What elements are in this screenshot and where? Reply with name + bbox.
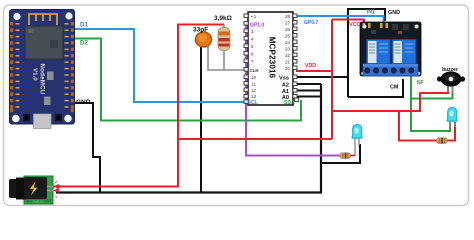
wire D2 to SDA (green)	[74, 39, 301, 121]
U1 pin number texts right	[285, 14, 290, 71]
wire A0 to GND	[296, 96, 321, 98]
RLY1 transistors	[392, 24, 398, 30]
svg-text:V1.0: V1.0	[32, 68, 38, 81]
wire relay NF to LED2 anode (green)	[411, 75, 450, 131]
wire CLK net (gray leads)	[208, 25, 245, 71]
svg-text:2: 2	[55, 180, 57, 184]
NodeMCU pin header left	[10, 22, 20, 112]
J1 lightning bolt	[30, 182, 37, 196]
svg-text:CM: CM	[390, 85, 399, 91]
wire relay NF to buzzer (green)	[411, 86, 453, 99]
U1 pin number texts left	[250, 14, 260, 99]
NodeMCU antenna	[29, 14, 57, 25]
RLY1 terminal block	[363, 64, 418, 76]
svg-text:23: 23	[285, 47, 290, 52]
relay module RLY1	[360, 22, 421, 76]
svg-text:PWR IN: PWR IN	[33, 200, 44, 204]
label VDD	[305, 63, 316, 69]
svg-text:24: 24	[285, 40, 290, 45]
NodeMCU pin header right	[65, 22, 75, 112]
U1 label GP1.0	[250, 23, 264, 29]
svg-text:D1: D1	[80, 22, 88, 29]
label 3.9kOhm	[214, 15, 232, 22]
capacitor C1 33pF	[196, 32, 212, 47]
svg-text:1: 1	[55, 195, 57, 199]
svg-text:26: 26	[285, 27, 290, 32]
U1 left pins	[244, 14, 248, 103]
wire GP0.7 pin28 to relay IN1 (blue)	[296, 16, 384, 22]
svg-text:GP0.7: GP0.7	[304, 20, 318, 26]
svg-text:25: 25	[285, 34, 290, 39]
svg-text:12: 12	[251, 88, 256, 93]
NodeMCU mounting holes	[13, 13, 20, 20]
wire LED1 cathode to GND	[321, 144, 360, 163]
label VCC	[349, 22, 360, 28]
svg-text:28: 28	[285, 14, 290, 19]
label D2	[80, 40, 88, 47]
svg-text:GND: GND	[388, 10, 400, 16]
svg-text:22: 22	[285, 53, 290, 58]
label GP0.7	[304, 20, 318, 26]
NodeMCU ESP module	[25, 26, 63, 59]
wire GND NodeMCU to rail	[74, 103, 100, 193]
svg-text:SCL: SCL	[248, 100, 258, 106]
LED2	[447, 107, 458, 127]
svg-text:33pF: 33pF	[193, 27, 208, 34]
resistor R3 (LED2)	[437, 138, 448, 144]
svg-text:VDD: VDD	[305, 63, 316, 69]
U1 label SDA	[284, 100, 295, 106]
svg-text:SDA: SDA	[284, 100, 295, 106]
svg-text:20: 20	[285, 66, 290, 71]
svg-text:11: 11	[251, 82, 256, 87]
label 33pF	[193, 27, 208, 34]
label IN1	[367, 10, 375, 16]
U1 label SCL	[248, 100, 258, 106]
wire VDD to buzzer (red)	[332, 86, 448, 111]
svg-text:MCP23016: MCP23016	[268, 37, 277, 79]
wire A2 to GND	[296, 83, 321, 85]
resistor R1 3.9k	[218, 28, 230, 51]
label GND (relay)	[388, 10, 400, 16]
svg-text:GND: GND	[76, 99, 91, 106]
wire GND rail	[56, 84, 321, 193]
svg-text:NodeMCU: NodeMCU	[39, 64, 46, 95]
svg-text:IN1: IN1	[367, 10, 375, 16]
svg-text:13: 13	[251, 94, 256, 99]
NodeMCU FLASH button	[55, 114, 62, 122]
label NF	[417, 80, 424, 86]
svg-text:21: 21	[285, 60, 290, 65]
J1 pins with red arrows	[47, 187, 53, 191]
label CM	[390, 85, 399, 91]
svg-text:27: 27	[285, 21, 290, 26]
wire battery+ to VDD (red)	[52, 25, 224, 187]
wire Vss to relay GND and COM	[296, 9, 403, 97]
wire D1 to SCL (blue)	[74, 29, 245, 102]
label D1	[80, 22, 88, 29]
U1 right pins	[293, 14, 299, 102]
wire A1 to GND	[296, 90, 321, 92]
label buzzer	[442, 67, 458, 73]
label GND (NodeMCU)	[76, 99, 91, 106]
svg-text:VCC: VCC	[349, 22, 360, 28]
LED1	[352, 124, 363, 155]
RLY1 relay K2	[392, 40, 416, 65]
op IC U1 MCP23016	[244, 12, 299, 106]
RLY1 header pins	[363, 23, 389, 28]
svg-text:GP1.0: GP1.0	[250, 23, 264, 29]
svg-text:D2: D2	[80, 40, 88, 47]
wire VDD to LED2 resistor (red)	[399, 111, 455, 141]
svg-text:A2: A2	[282, 83, 289, 89]
svg-text:3,9kΩ: 3,9kΩ	[214, 15, 232, 22]
svg-text:Vss: Vss	[279, 76, 289, 82]
svg-text:NF: NF	[417, 80, 424, 86]
wire capacitor leg to GND rail	[200, 46, 202, 192]
NodeMCU USB connector	[34, 114, 52, 129]
svg-text:buzzer: buzzer	[442, 67, 458, 73]
RLY1 mounting holes	[363, 25, 367, 29]
wire VDD branch to IC (red)	[178, 20, 364, 140]
svg-text:• 1: • 1	[251, 14, 257, 19]
U1 part name	[268, 37, 277, 79]
resistor R2 (LED1)	[340, 153, 355, 159]
NodeMCU board U2	[10, 10, 75, 129]
RLY1 relay K1	[367, 40, 391, 65]
svg-text:CLK: CLK	[250, 68, 260, 73]
NodeMCU RST button	[23, 114, 30, 122]
power jack J1	[9, 176, 59, 204]
buzzer BZ1	[437, 71, 465, 92]
svg-text:10: 10	[251, 75, 256, 80]
wire GP1.0 to LED1 resistor (purple)	[244, 24, 341, 156]
U1 labels Vss A2 A1 A0	[279, 76, 289, 102]
